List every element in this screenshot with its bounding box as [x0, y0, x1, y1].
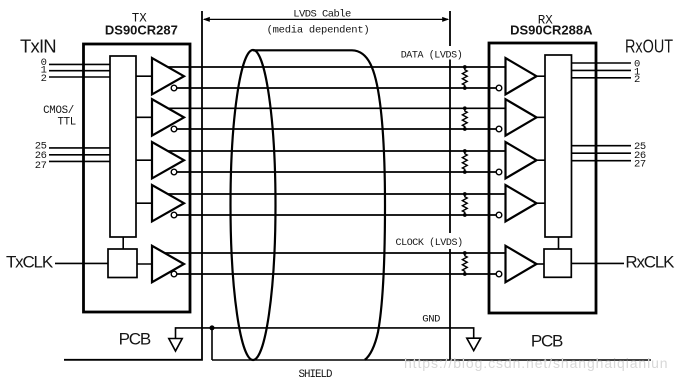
svg-text:GND: GND [422, 314, 440, 326]
wire pair 3 non-inverting line [158, 193, 506, 195]
svg-text:TTL: TTL [57, 116, 76, 128]
wire pair 2 inverting line [172, 171, 499, 173]
driver 4 inverting bubble [171, 212, 177, 218]
svg-text:TxIN: TxIN [20, 36, 56, 57]
svg-text:27: 27 [634, 158, 646, 170]
svg-text:2: 2 [41, 73, 47, 85]
RX ground symbol [467, 338, 481, 350]
wire serializer to driver 5 [136, 263, 156, 265]
LVDS driver 2 (TX) [152, 99, 184, 135]
LVDS receiver 3 (RX) [506, 142, 537, 178]
wire receiver 4 to deserializer [530, 202, 545, 204]
label CLOCK (LVDS) [394, 233, 466, 249]
svg-text:DS90CR287: DS90CR287 [105, 22, 178, 37]
receiver 3 inverting bubble [496, 169, 502, 175]
RX deserializer block [545, 55, 572, 237]
svg-text:DATA (LVDS): DATA (LVDS) [401, 50, 463, 62]
label DATA (LVDS) [399, 46, 465, 62]
LVDS driver 4 (TX) [152, 185, 184, 221]
wire TxIN1 input [49, 70, 110, 72]
RX PLL block [544, 249, 571, 277]
wire receiver 5 to deserializer [530, 263, 545, 265]
wire receiver 2 to deserializer [530, 116, 545, 118]
wire clock pair inverting line [172, 273, 499, 275]
right arrowhead [442, 17, 449, 22]
driver 3 inverting bubble [171, 169, 177, 175]
wire TxIN26 input [49, 154, 110, 156]
svg-text:DS90CR288A: DS90CR288A [510, 23, 593, 38]
wire shield drop [211, 328, 213, 360]
termination resistor RT3 [462, 149, 467, 174]
wire RxOUT27 output [572, 160, 632, 162]
junction dot shield to GND [210, 325, 215, 330]
dimension line LVDS cable span [204, 18, 448, 20]
svg-text:https://blog.csdn.net/shanghai: https://blog.csdn.net/shanghaiqianlun [404, 355, 668, 371]
driver 5 inverting bubble [171, 271, 177, 277]
termination resistor RT4 [462, 192, 467, 217]
wire serializer to driver 2 [136, 116, 156, 118]
svg-text:SHIELD: SHIELD [299, 369, 332, 381]
wire GND net TX to RX [176, 328, 474, 339]
left arrowhead [203, 17, 210, 22]
wire serializer to TX PLL [122, 237, 124, 249]
wire pair 1 inverting line [172, 128, 499, 130]
termination resistor RT5 [462, 251, 467, 276]
TX serializer block [110, 56, 136, 237]
svg-text:2: 2 [634, 74, 640, 86]
wire pair 2 non-inverting line [158, 150, 506, 152]
wire RxCLK output [571, 262, 624, 264]
driver 1 inverting bubble [171, 85, 177, 91]
LVDS cable body outline [253, 50, 385, 360]
wire shield [212, 359, 651, 361]
right connector line [449, 11, 451, 360]
svg-text:TxCLK: TxCLK [6, 253, 54, 272]
LVDS receiver 5 (RX) [506, 246, 537, 282]
wire TxIN27 input [49, 160, 110, 162]
wire RxOUT0 output [572, 62, 632, 64]
receiver 5 inverting bubble [496, 271, 502, 277]
wire serializer to driver 3 [136, 159, 156, 161]
LVDS cable end-face ellipse [231, 50, 276, 360]
driver 2 inverting bubble [171, 126, 177, 132]
wire pair 0 non-inverting line [158, 66, 506, 68]
svg-text:27: 27 [35, 160, 47, 172]
wire clock pair non-inverting line [158, 252, 506, 254]
wire serializer to driver 4 [136, 202, 156, 204]
svg-text:PCB: PCB [119, 330, 151, 349]
wire TxCLK input [55, 262, 108, 264]
svg-text:RxOUT: RxOUT [625, 36, 673, 57]
svg-text:(media dependent): (media dependent) [267, 25, 370, 37]
wire deserializer to RX PLL [558, 237, 560, 249]
wire pair 0 inverting line [172, 87, 499, 89]
wire pair 1 non-inverting line [158, 107, 506, 109]
LVDS driver 3 (TX) [152, 142, 184, 178]
svg-text:CMOS/: CMOS/ [43, 105, 74, 117]
wire TxIN2 input [49, 76, 110, 78]
IC outline TX DS90CR287 [84, 44, 191, 312]
wire RxOUT26 output [572, 152, 632, 154]
TX ground symbol [169, 339, 182, 352]
svg-text:PCB: PCB [531, 332, 563, 351]
LVDS driver 5 (TX) [152, 246, 184, 282]
wire serializer to driver 1 [136, 75, 156, 77]
receiver 2 inverting bubble [496, 126, 502, 132]
svg-text:CLOCK (LVDS): CLOCK (LVDS) [396, 237, 463, 249]
svg-text:LVDS Cable: LVDS Cable [293, 8, 351, 20]
LVDS receiver 1 (RX) [506, 58, 537, 94]
wire RxOUT2 output [572, 77, 632, 79]
svg-text:RxCLK: RxCLK [625, 253, 675, 272]
termination resistor RT1 [462, 65, 467, 90]
termination resistor RT2 [462, 106, 467, 130]
IC outline RX DS90CR288A [489, 43, 596, 313]
TX PLL block [108, 249, 137, 278]
wire pair 3 inverting line [172, 214, 499, 216]
wire receiver 3 to deserializer [530, 159, 545, 161]
receiver 4 inverting bubble [496, 212, 502, 218]
wire TxIN25 input [49, 147, 110, 149]
LVDS driver 1 (TX) [152, 58, 184, 94]
left connector line with PCB ground edge [64, 11, 202, 360]
wire RxOUT1 output [572, 69, 632, 71]
wire receiver 1 to deserializer [530, 75, 545, 77]
receiver 1 inverting bubble [496, 85, 502, 91]
wire TxIN0 input [49, 63, 110, 65]
LVDS receiver 2 (RX) [506, 99, 537, 135]
LVDS receiver 4 (RX) [506, 185, 537, 221]
wire RxOUT25 output [572, 145, 632, 147]
